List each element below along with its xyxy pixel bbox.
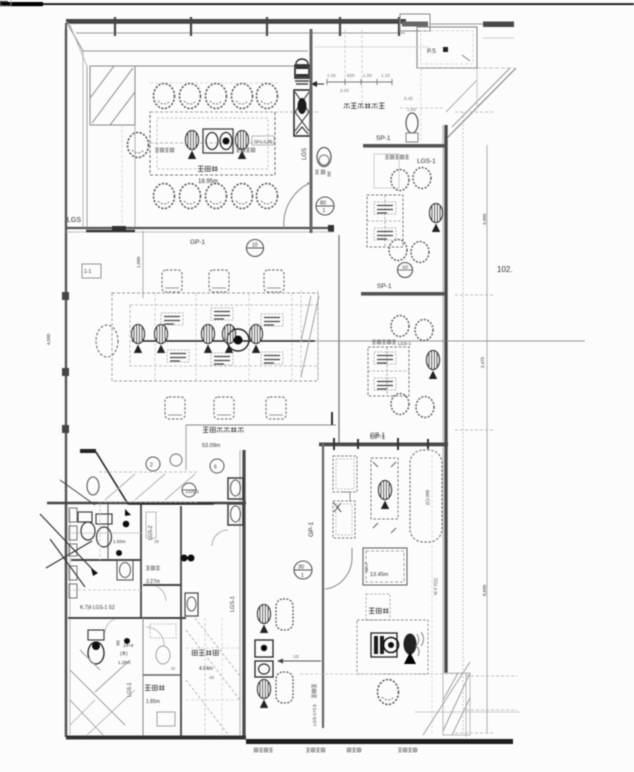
svg-text:6: 6	[214, 465, 217, 471]
svg-text:102.: 102.	[497, 265, 513, 274]
svg-text:1D: 1D	[402, 265, 409, 271]
svg-text:1.85m: 1.85m	[146, 699, 160, 705]
svg-text:18.95m: 18.95m	[198, 179, 218, 185]
svg-text:LGS-1: LGS-1	[127, 682, 133, 697]
svg-text:1-1: 1-1	[84, 269, 91, 275]
svg-text:80: 80	[320, 201, 326, 207]
svg-text:OH=2.88: OH=2.88	[254, 139, 273, 144]
svg-text:GP-1: GP-1	[370, 432, 386, 439]
svg-text:3.27m: 3.27m	[146, 579, 160, 585]
svg-text:1.25m: 1.25m	[118, 660, 131, 665]
svg-text:W=7: W=7	[364, 562, 369, 572]
svg-text:1.00: 1.00	[327, 73, 336, 78]
svg-text:LGS-2: LGS-2	[148, 525, 154, 540]
svg-text:4,500: 4,500	[46, 333, 51, 345]
svg-text:LGS-1: LGS-1	[398, 341, 412, 346]
svg-text:1.00: 1.00	[363, 73, 372, 78]
svg-text:LGS: LGS	[302, 148, 308, 160]
svg-text:P.S: P.S	[427, 49, 436, 55]
svg-text:LGS-1: LGS-1	[230, 596, 236, 612]
svg-text:53.09m: 53.09m	[202, 443, 221, 449]
svg-text:8,600: 8,600	[482, 584, 487, 596]
svg-text:2: 2	[150, 463, 153, 469]
svg-text:(木): (木)	[120, 650, 128, 657]
svg-text:LGS: LGS	[67, 217, 81, 224]
svg-text:LGS-1: LGS-1	[186, 489, 200, 494]
svg-text:SP-1: SP-1	[377, 283, 392, 290]
svg-text:2,475: 2,475	[480, 356, 485, 368]
svg-text:38: 38	[154, 539, 160, 544]
svg-text:1.00: 1.00	[407, 107, 416, 112]
svg-text:N-7-7(1): N-7-7(1)	[433, 578, 438, 595]
svg-text:10: 10	[252, 243, 258, 249]
svg-text:1: 1	[301, 573, 304, 579]
svg-text:GP-1: GP-1	[308, 521, 315, 537]
svg-text:1,000: 1,000	[136, 256, 141, 268]
svg-text:2.00: 2.00	[340, 88, 349, 93]
svg-text:1: 1	[323, 208, 326, 214]
svg-text:GP-1: GP-1	[190, 239, 206, 246]
svg-text:48: 48	[209, 675, 215, 680]
svg-text:1.10: 1.10	[381, 73, 390, 78]
svg-text:SP-1: SP-1	[376, 135, 391, 142]
svg-text:LGS-1: LGS-1	[417, 158, 436, 165]
svg-text:30: 30	[298, 565, 304, 571]
svg-text:LGS-1+2.5: LGS-1+2.5	[312, 704, 317, 726]
svg-text:500: 500	[347, 73, 355, 78]
svg-text:(C)-205: (C)-205	[425, 489, 430, 505]
svg-text:0.45: 0.45	[404, 96, 413, 101]
svg-text:4,900: 4,900	[482, 213, 487, 225]
svg-text:1.50m: 1.50m	[113, 539, 126, 544]
svg-text:4.84m: 4.84m	[199, 666, 213, 672]
svg-text:.14+9: .14+9	[122, 643, 134, 648]
svg-text:K.7)il LGS-1 S2: K.7)il LGS-1 S2	[80, 605, 115, 611]
svg-text:13.45m: 13.45m	[370, 572, 389, 578]
svg-text:U9: U9	[293, 654, 299, 659]
